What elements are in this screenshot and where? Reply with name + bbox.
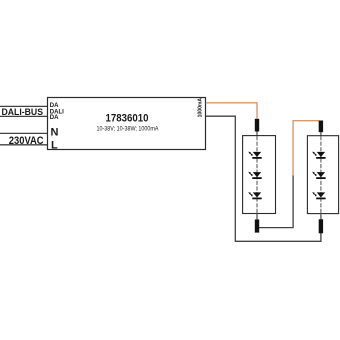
- LED module 2 axis stub bottom: [320, 214, 322, 220]
- LED module 1 connector top: [255, 119, 259, 132]
- svg-text:17836010: 17836010: [106, 112, 149, 124]
- wire DA (upper DALI line): [0, 105, 48, 107]
- LED module 2 dashed axis: [320, 136, 322, 214]
- wire L (mains): [0, 144, 48, 146]
- svg-text:N: N: [51, 127, 59, 139]
- LED module 2 connector top: [319, 121, 323, 133]
- wire N (mains): [0, 132, 48, 134]
- LED driver U1 body: [48, 98, 206, 150]
- LED module 1 connector bottom: [255, 220, 259, 233]
- LED module 1 axis stub bottom: [256, 213, 258, 219]
- wire LED- return (driver to module 2 bottom): [206, 116, 321, 241]
- LED module 2 body: [307, 136, 338, 214]
- LED D4: [312, 152, 326, 159]
- LED module 1 dashed axis: [256, 136, 258, 213]
- LED module 1 axis stub top: [256, 132, 258, 137]
- wire LED+ (orange, driver to module 1): [206, 103, 257, 119]
- LED D1: [248, 152, 262, 159]
- LED D2: [248, 172, 262, 179]
- svg-text:DA: DA: [50, 103, 59, 109]
- svg-text:10-38V; 10-38W; 1000mA: 10-38V; 10-38W; 1000mA: [97, 127, 159, 133]
- LED module 2 connector bottom: [319, 219, 323, 233]
- LED module 1 body: [243, 136, 276, 214]
- LED D3: [248, 192, 262, 199]
- svg-text:DA: DA: [50, 115, 59, 121]
- svg-text:230VAC: 230VAC: [9, 135, 44, 147]
- wire DA (lower DALI line): [0, 115, 48, 117]
- LED D5: [312, 172, 326, 179]
- wire module1- to module2+ (orange upper part): [293, 121, 319, 176]
- LED module 2 axis stub top: [320, 132, 322, 136]
- svg-text:1000mA: 1000mA: [198, 97, 204, 117]
- svg-text:DALI-BUS: DALI-BUS: [2, 107, 44, 117]
- wire module1- to module2+ (gray lower part): [257, 175, 293, 228]
- svg-text:L: L: [51, 139, 58, 151]
- LED D6: [312, 192, 326, 199]
